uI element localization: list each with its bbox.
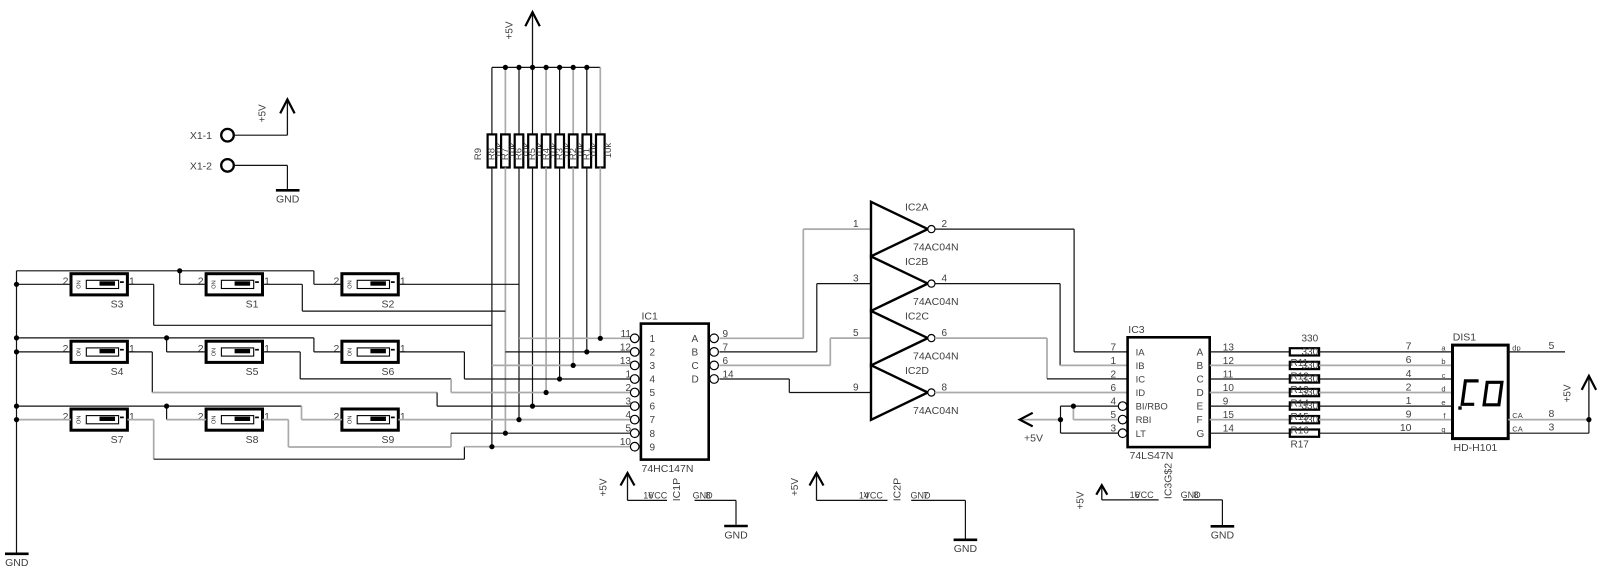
wire drop to S1 pin2 (179, 271, 181, 285)
+5V supply for IC2P (816, 473, 818, 500)
junction on +5V bus 7 (584, 65, 589, 70)
display CA pin 3 (1508, 432, 1589, 434)
wire CA tie to +5V (1588, 420, 1590, 434)
wire IC2P GND (911, 499, 965, 501)
svg-text:3: 3 (625, 397, 631, 408)
ground at IC1P (724, 525, 748, 528)
svg-text:10: 10 (620, 437, 632, 448)
svg-text:VCC: VCC (648, 490, 668, 500)
op IC3 74LS47N BCD to 7-segment decoder (1128, 337, 1210, 447)
wire input 6 line to IC1 (437, 405, 630, 407)
IC1 output pin 14 (D) (710, 375, 719, 384)
junction rail row3 (14, 417, 19, 422)
resistor R2 10k pull-up (586, 67, 588, 134)
svg-text:GND: GND (724, 529, 748, 541)
svg-text:DIS1: DIS1 (1453, 332, 1477, 344)
svg-text:2: 2 (63, 343, 69, 355)
wire S5 output (263, 351, 301, 353)
svg-text:ON: ON (77, 416, 83, 424)
svg-text:RBI: RBI (1136, 415, 1152, 426)
junction row2 feed (164, 335, 169, 340)
wire corner to S6 pin2 (313, 338, 315, 352)
svg-text:dp: dp (1512, 343, 1520, 352)
svg-text:b: b (1441, 357, 1445, 366)
wire R1 down to input line (599, 168, 601, 339)
wire R6 down to input line (532, 168, 534, 407)
junction row3 feed (164, 404, 169, 409)
svg-text:ON: ON (347, 280, 353, 288)
svg-text:1: 1 (264, 411, 270, 423)
svg-text:4: 4 (625, 410, 631, 421)
resistor R5 10k pull-up (545, 67, 547, 134)
wire R8 down to input line (504, 168, 506, 434)
switch S9 (342, 409, 398, 430)
svg-text:G: G (1197, 429, 1205, 440)
svg-text:2: 2 (1110, 370, 1116, 381)
svg-text:1: 1 (625, 370, 631, 381)
svg-text:74HC147N: 74HC147N (642, 463, 694, 475)
svg-text:9: 9 (853, 382, 859, 393)
svg-text:GND: GND (5, 557, 29, 569)
ground at left rail (5, 552, 29, 555)
svg-text:X1-2: X1-2 (190, 160, 212, 172)
svg-text:8: 8 (1549, 408, 1555, 420)
svg-text:R9: R9 (473, 148, 484, 160)
wire rail to S7 pin2 (17, 419, 72, 421)
inverter IC2D 74AC04N (871, 365, 928, 420)
resistor R11 330 (1210, 351, 1290, 353)
svg-text:3: 3 (650, 361, 656, 372)
svg-text:330: 330 (1302, 388, 1319, 399)
svg-text:R4: R4 (541, 148, 552, 160)
svg-text:R7: R7 (500, 148, 511, 160)
svg-text:2: 2 (650, 348, 656, 359)
svg-text:GND: GND (1211, 530, 1235, 542)
wire corner to S9 pin2 (301, 406, 303, 420)
svg-text:6: 6 (650, 402, 656, 413)
wire S7 output (127, 419, 153, 421)
svg-text:2: 2 (942, 219, 948, 230)
svg-text:7: 7 (1406, 341, 1412, 353)
IC1 output pin 6 (C) (710, 361, 719, 370)
resistor R15 330 (1210, 405, 1290, 407)
resistor R4 10k pull-up (559, 67, 561, 134)
+5V supply symbol at X1 (286, 99, 288, 135)
wire R11 to display (1319, 351, 1452, 353)
svg-text:S5: S5 (246, 366, 259, 378)
svg-text:1: 1 (129, 411, 135, 423)
wire S9 output / input 7 line (398, 419, 630, 421)
junction on +5V bus 6 (571, 65, 576, 70)
switch S7 (71, 409, 127, 430)
wire IC3 control pins tie (1060, 406, 1062, 433)
wire R4 down to input line (559, 168, 561, 380)
wire drop to S8 pin2 (166, 406, 168, 420)
IC1 input pin 13 (630, 361, 639, 370)
svg-text:HD-H101: HD-H101 (1454, 442, 1498, 454)
svg-text:3: 3 (853, 273, 859, 284)
svg-text:R16: R16 (1291, 426, 1310, 437)
IC1 input pin 3 (630, 402, 639, 411)
wire X1-1 to +5V (234, 134, 288, 136)
svg-text:5: 5 (1549, 340, 1555, 352)
svg-text:d: d (1441, 384, 1445, 393)
wire input 8 line to IC1 (451, 432, 630, 434)
svg-text:330: 330 (1302, 347, 1319, 358)
wire row1 gnd feed top (17, 270, 314, 272)
svg-text:+5V: +5V (1563, 384, 1574, 402)
svg-text:2: 2 (63, 411, 69, 423)
svg-text:CA: CA (1512, 425, 1522, 434)
svg-text:2: 2 (198, 276, 204, 288)
ground at IC2P (954, 538, 978, 541)
IC1 input pin 2 (630, 388, 639, 397)
wire R2 down to input line (586, 168, 588, 352)
svg-text:10: 10 (1400, 422, 1412, 434)
switch S4 (71, 341, 127, 362)
wire R5 down to input line (545, 168, 547, 393)
svg-text:2: 2 (198, 411, 204, 423)
svg-text:1: 1 (264, 343, 270, 355)
svg-text:+5V: +5V (505, 21, 516, 39)
svg-text:C: C (692, 361, 699, 372)
wire R9 down to input line (491, 168, 493, 447)
svg-text:2: 2 (334, 343, 340, 355)
IC1 input pin 10 (630, 442, 639, 451)
svg-text:2: 2 (625, 383, 631, 394)
svg-text:74AC04N: 74AC04N (913, 405, 959, 417)
svg-text:ON: ON (347, 416, 353, 424)
svg-text:2: 2 (1406, 381, 1412, 393)
wire R3 down to input line (572, 168, 574, 366)
svg-text:+5V: +5V (599, 478, 610, 496)
wire R13 to display (1319, 378, 1452, 380)
svg-text:X1-1: X1-1 (190, 130, 212, 142)
junction R pull-up on input 1 (598, 336, 603, 341)
switch S3 (71, 274, 127, 295)
wire IC1P GND (695, 499, 736, 501)
svg-text:12: 12 (620, 342, 632, 353)
svg-text:S9: S9 (381, 434, 394, 446)
IC3 input pin 3 (LT) (1118, 429, 1127, 438)
svg-text:R3: R3 (554, 148, 565, 160)
svg-text:IC3: IC3 (1128, 324, 1145, 336)
junction +5V tie (1058, 417, 1063, 422)
wire corner to S2 pin2 (313, 271, 315, 285)
junction on +5V bus 4 (544, 65, 549, 70)
svg-text:74AC04N: 74AC04N (913, 296, 959, 308)
inverter IC2A 74AC04N (871, 202, 928, 256)
svg-text:ON: ON (77, 348, 83, 356)
wire IC1P VCC (628, 499, 668, 501)
svg-text:IB: IB (1136, 361, 1145, 372)
svg-text:1: 1 (853, 219, 859, 230)
svg-text:e: e (1441, 398, 1445, 407)
junction on +5V bus 5 (557, 65, 562, 70)
svg-text:S4: S4 (111, 366, 124, 378)
wire R16 to display (1319, 419, 1452, 421)
svg-text:1: 1 (1406, 395, 1412, 407)
wire IC2D out to IC3 ID (935, 392, 1128, 394)
wire IC2A out to IC3 IA (935, 228, 1074, 230)
svg-text:A: A (692, 334, 699, 345)
svg-text:7: 7 (650, 415, 656, 426)
junction row1 feed (177, 268, 182, 273)
svg-text:1: 1 (1110, 356, 1116, 367)
svg-text:BI/RBO: BI/RBO (1136, 402, 1168, 413)
svg-text:IA: IA (1136, 348, 1146, 359)
svg-text:LT: LT (1136, 429, 1147, 440)
wire row2 gnd feed top (17, 337, 314, 339)
wire S6 output (398, 351, 464, 353)
wire rail to S3 pin2 (17, 283, 72, 285)
resistor R7 10k pull-up (518, 67, 520, 134)
svg-text:S1: S1 (246, 299, 259, 311)
wire S2 output (398, 283, 519, 285)
svg-text:2: 2 (63, 276, 69, 288)
resistor R13 330 (1210, 378, 1290, 380)
junction R pull-up on input 4 (557, 376, 562, 381)
wire IC3 GND (1183, 499, 1222, 501)
wire IC1 B to IC2B (719, 351, 816, 353)
+5V supply for IC3G$2 (1101, 485, 1103, 500)
inverter IC2B 74AC04N (871, 256, 928, 311)
junction R pull-up on input 9 (489, 444, 494, 449)
svg-text:ON: ON (77, 280, 83, 288)
ground at X1 (276, 189, 300, 192)
wire R12 to display (1319, 364, 1452, 366)
wire IC1 A to IC2A (719, 337, 803, 339)
svg-text:CA: CA (1512, 411, 1522, 420)
wire R7 down to input line (518, 168, 520, 420)
svg-text:IC2A: IC2A (905, 202, 928, 214)
svg-text:8: 8 (1194, 490, 1199, 500)
junction R pull-up on input 6 (530, 404, 535, 409)
svg-text:+5V: +5V (258, 104, 269, 122)
resistor R17 330 (1210, 432, 1290, 434)
junction rail row1 (14, 282, 19, 287)
svg-text:IC2P: IC2P (892, 478, 904, 501)
svg-text:S6: S6 (381, 366, 394, 378)
wire IC2C out to IC3 IC (935, 337, 1047, 339)
display digit glyph (1462, 381, 1478, 404)
op IC1 74HC147N priority encoder (641, 324, 709, 460)
svg-text:B: B (1197, 361, 1204, 372)
svg-text:A: A (1197, 348, 1204, 359)
svg-text:6: 6 (1110, 383, 1116, 394)
svg-text:D: D (1197, 388, 1204, 399)
wire input 9 line to IC1 (464, 446, 630, 448)
svg-text:13: 13 (620, 356, 632, 367)
svg-text:S2: S2 (381, 299, 394, 311)
svg-text:S3: S3 (111, 299, 124, 311)
svg-text:1: 1 (264, 276, 270, 288)
svg-text:330: 330 (1302, 361, 1319, 372)
IC1 input pin 4 (630, 415, 639, 424)
svg-text:R17: R17 (1291, 439, 1310, 450)
svg-text:GND: GND (276, 194, 300, 206)
IC1 output pin 9 (A) (710, 334, 719, 343)
IC3 input pin 4 (BI/RBO) (1118, 402, 1127, 411)
wire input 3 line to IC1 (492, 364, 631, 366)
svg-text:1: 1 (129, 343, 135, 355)
junction on +5V bus 2 (516, 65, 521, 70)
wire drop to S5 pin2 (166, 338, 168, 352)
wire S3 output (127, 283, 153, 285)
svg-text:7: 7 (1110, 342, 1116, 353)
svg-text:2: 2 (334, 411, 340, 423)
svg-text:E: E (1197, 402, 1204, 413)
wire IC2B out to IC3 IB (935, 283, 1060, 285)
svg-text:R6: R6 (514, 148, 525, 160)
svg-text:2: 2 (334, 276, 340, 288)
+5V supply (left arrow) for IC3 control pins (1020, 419, 1061, 421)
svg-text:4: 4 (650, 375, 656, 386)
wire input 1 line to IC1 (519, 337, 630, 339)
junction rail row2 (14, 349, 19, 354)
svg-text:B: B (692, 348, 699, 359)
svg-text:11: 11 (621, 329, 632, 340)
junction R pull-up on input 8 (503, 431, 508, 436)
wire IC3 VCC (1102, 499, 1159, 501)
junction rail row2 top (14, 335, 19, 340)
wire +5V bus over resistors (492, 66, 600, 68)
IC1 input pin 12 (630, 348, 639, 357)
svg-text:10k: 10k (603, 143, 614, 159)
svg-text:S8: S8 (246, 434, 259, 446)
junction R pull-up on input 2 (584, 349, 589, 354)
junction R pull-up on input 7 (516, 417, 521, 422)
wire input 2 line to IC1 (505, 351, 630, 353)
IC3 input pin 5 (RBI) (1118, 415, 1127, 424)
wire rail to S4 pin2 (17, 351, 72, 353)
svg-text:7: 7 (923, 490, 928, 500)
junction rail row3 top (14, 404, 19, 409)
junction R pull-up on input 5 (544, 390, 549, 395)
inverter IC2C 74AC04N (871, 311, 928, 366)
svg-text:IC: IC (1136, 375, 1146, 386)
IC1 output pin 7 (B) (710, 348, 719, 357)
svg-text:9: 9 (650, 442, 656, 453)
junction R pull-up on input 3 (571, 363, 576, 368)
svg-text:1: 1 (129, 276, 135, 288)
display dp pin 5 (1508, 351, 1565, 353)
wire S8 output (263, 419, 289, 421)
resistor R14 330 (1210, 392, 1290, 394)
svg-text:330: 330 (1302, 415, 1319, 426)
svg-text:C: C (1197, 375, 1204, 386)
svg-text:330: 330 (1302, 334, 1319, 345)
wire row3 gnd feed top (17, 405, 302, 407)
display CA pin 8 (1508, 419, 1589, 421)
wire GND rail vertical (16, 271, 18, 553)
junction BI line (1071, 404, 1076, 409)
svg-text:330: 330 (1302, 374, 1319, 385)
svg-text:IC2D: IC2D (905, 365, 929, 377)
svg-text:IC2C: IC2C (905, 311, 929, 323)
svg-text:74AC04N: 74AC04N (913, 350, 959, 362)
svg-text:74LS47N: 74LS47N (1130, 450, 1174, 462)
wire R15 to display (1319, 405, 1452, 407)
switch S1 (206, 274, 262, 295)
switch S2 (342, 274, 398, 295)
svg-text:9: 9 (1406, 408, 1412, 420)
switch S5 (206, 341, 262, 362)
svg-text:+5V: +5V (1024, 433, 1043, 445)
svg-text:+5V: +5V (1076, 491, 1087, 509)
svg-text:F: F (1197, 415, 1203, 426)
svg-text:1: 1 (400, 343, 406, 355)
resistor R16 330 (1210, 419, 1290, 421)
svg-text:+5V: +5V (790, 478, 801, 496)
svg-text:VCC: VCC (864, 490, 884, 500)
resistor R8 10k pull-up (504, 67, 506, 134)
resistor R1 10k pull-up (599, 67, 601, 134)
svg-text:2: 2 (198, 343, 204, 355)
svg-text:GND: GND (954, 543, 978, 555)
svg-text:4: 4 (942, 273, 948, 284)
svg-text:IC3G$2: IC3G$2 (1163, 463, 1175, 499)
svg-text:1: 1 (400, 411, 406, 423)
wire X1-2 to GND (234, 164, 288, 166)
svg-text:ON: ON (347, 348, 353, 356)
svg-text:330: 330 (1302, 401, 1319, 412)
svg-text:R2: R2 (568, 148, 579, 160)
IC1 input pin 5 (630, 429, 639, 438)
junction CA +5V (1586, 417, 1591, 422)
svg-text:1: 1 (650, 334, 656, 345)
resistor R9 10k pull-up (491, 67, 493, 134)
svg-text:5: 5 (853, 328, 859, 339)
wire X1-2 down (286, 165, 288, 189)
wire S4 output (127, 351, 152, 353)
resistor R6 10k pull-up (532, 67, 534, 134)
IC1 input pin 1 (630, 375, 639, 384)
svg-text:4: 4 (1406, 368, 1412, 380)
svg-text:c: c (1442, 371, 1446, 380)
svg-text:g: g (1441, 425, 1445, 434)
svg-text:ON: ON (212, 280, 218, 288)
svg-text:R1: R1 (581, 148, 592, 160)
junction on +5V bus 3 (530, 65, 535, 70)
svg-text:5: 5 (650, 388, 656, 399)
svg-text:8: 8 (650, 429, 656, 440)
wire IC2P VCC (817, 499, 888, 501)
svg-text:IC2B: IC2B (905, 256, 928, 268)
+5V supply for IC1P (627, 473, 629, 500)
svg-text:ON: ON (212, 348, 218, 356)
svg-text:IC1P: IC1P (671, 478, 683, 501)
wire R17 to display (1319, 432, 1452, 434)
switch S8 (206, 409, 262, 430)
svg-text:ID: ID (1136, 388, 1146, 399)
resistor R12 330 (1210, 364, 1290, 366)
display DIS1 HD-H101 (1453, 345, 1509, 439)
+5V supply at display (1588, 376, 1590, 420)
junction on +5V bus 1 (503, 65, 508, 70)
resistor R3 10k pull-up (572, 67, 574, 134)
svg-text:5: 5 (625, 424, 631, 435)
svg-text:74AC04N: 74AC04N (913, 241, 959, 253)
svg-text:8: 8 (706, 490, 711, 500)
wire input 4 line to IC1 (464, 378, 630, 380)
IC1 input pin 11 (630, 334, 639, 343)
wire input 5 line to IC1 (451, 392, 630, 394)
svg-text:1: 1 (400, 276, 406, 288)
svg-text:ON: ON (212, 416, 218, 424)
svg-text:R8: R8 (487, 148, 498, 160)
svg-text:6: 6 (1406, 354, 1412, 366)
